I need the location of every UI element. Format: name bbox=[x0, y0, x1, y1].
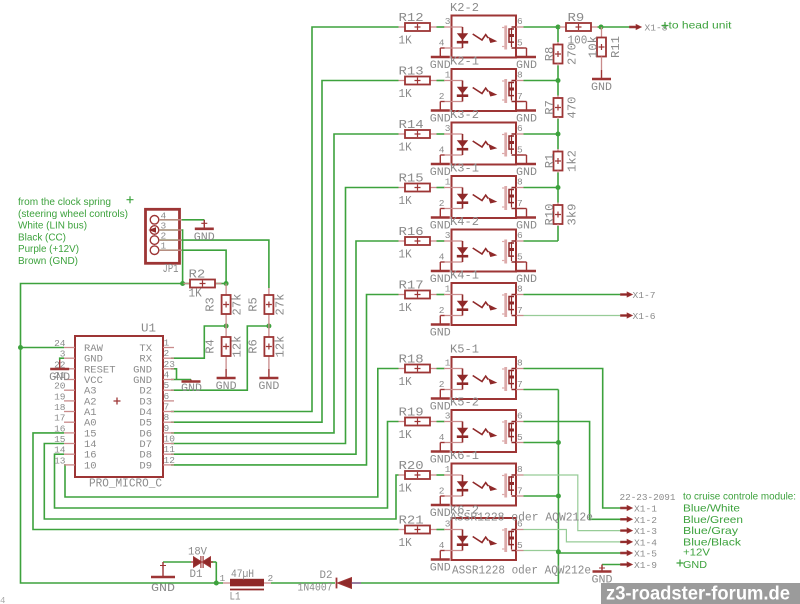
wire chain to X1-5 bbox=[558, 552, 620, 554]
svg-text:X1-6: X1-6 bbox=[633, 311, 656, 322]
svg-text:R8: R8 bbox=[544, 47, 557, 62]
diode D1 18V bbox=[191, 556, 213, 568]
svg-text:4: 4 bbox=[439, 432, 445, 443]
connector pin X1-5 bbox=[621, 550, 633, 555]
svg-text:D9: D9 bbox=[139, 460, 152, 472]
svg-text:1N4007: 1N4007 bbox=[298, 583, 333, 595]
lead K4-2 pin 5 to ground bbox=[516, 261, 527, 263]
wire R15 to optocoupler bbox=[437, 187, 445, 189]
junction R9 / R11 / X1-8 bbox=[599, 25, 604, 30]
resistor R20 bbox=[399, 471, 437, 479]
svg-text:7: 7 bbox=[517, 91, 523, 102]
svg-text:27k: 27k bbox=[232, 293, 245, 315]
svg-text:5: 5 bbox=[517, 432, 523, 443]
svg-text:D1: D1 bbox=[190, 569, 203, 581]
svg-text:5: 5 bbox=[517, 540, 523, 551]
resistor R6 bbox=[264, 337, 273, 356]
ground under K3-2 pin 5 bbox=[517, 155, 536, 164]
wire K5-1 pin8 to X1-1 bbox=[524, 369, 621, 509]
svg-text:4: 4 bbox=[164, 370, 170, 381]
wire R16 to optocoupler bbox=[437, 240, 445, 242]
ground at U1 pin4 bbox=[190, 380, 192, 382]
svg-text:3: 3 bbox=[445, 16, 451, 27]
svg-text:1: 1 bbox=[445, 358, 451, 369]
optocoupler K4-2 bbox=[444, 230, 524, 272]
ground under K5-1 pin 2 bbox=[431, 390, 450, 399]
svg-text:1: 1 bbox=[445, 464, 451, 475]
svg-text:R10: R10 bbox=[544, 203, 557, 225]
lead K2-1 pin 2 to ground bbox=[440, 101, 444, 103]
svg-text:K5-1: K5-1 bbox=[450, 344, 479, 357]
connector pin X1-3 bbox=[621, 528, 633, 533]
resistor R18 bbox=[399, 365, 437, 373]
svg-text:11: 11 bbox=[164, 444, 176, 455]
svg-text:2: 2 bbox=[439, 198, 445, 209]
wire K4-1 pin8 to X1-7 bbox=[524, 294, 621, 296]
wire ground to D1 bbox=[163, 561, 191, 563]
svg-text:K6-1: K6-1 bbox=[450, 450, 479, 463]
connector pin X1-6 bbox=[621, 313, 633, 318]
wire R18 to optocoupler bbox=[437, 368, 445, 370]
svg-text:1k2: 1k2 bbox=[567, 150, 580, 172]
lead K3-2 pin 5 to ground bbox=[516, 154, 527, 156]
ground under K2-1 pin 7 bbox=[517, 102, 536, 111]
wire U1 pin13 to R18 bbox=[64, 369, 399, 498]
optocoupler K6-1 bbox=[444, 464, 524, 506]
ground at D1 bbox=[151, 562, 175, 577]
lead R11 bottom bbox=[601, 57, 603, 71]
svg-text:K2-2: K2-2 bbox=[450, 2, 479, 15]
svg-text:4: 4 bbox=[439, 145, 445, 156]
svg-text:1K: 1K bbox=[399, 249, 412, 262]
svg-text:14: 14 bbox=[54, 445, 66, 456]
wire R12 to optocoupler bbox=[437, 26, 445, 28]
svg-text:to head unit: to head unit bbox=[669, 20, 732, 32]
wire U1 D9 to row 6 bbox=[171, 295, 399, 465]
svg-text:2: 2 bbox=[439, 379, 445, 390]
svg-text:GND: GND bbox=[258, 381, 279, 393]
junction D1 / rail bbox=[214, 581, 219, 586]
svg-text:1K: 1K bbox=[399, 302, 412, 315]
svg-text:6: 6 bbox=[517, 411, 523, 422]
resistor R17 bbox=[399, 291, 437, 299]
svg-text:22-23-2091: 22-23-2091 bbox=[620, 492, 676, 503]
resistor R4 bbox=[222, 337, 231, 356]
svg-text:R2: R2 bbox=[189, 269, 206, 282]
ground under K6-1 pin 2 bbox=[431, 496, 450, 505]
wire chain R10 to row5 bbox=[557, 226, 559, 241]
svg-text:K4-2: K4-2 bbox=[450, 216, 479, 229]
svg-text:12k: 12k bbox=[232, 335, 245, 357]
ground under K4-2 pin 4 bbox=[431, 262, 450, 271]
lead R5 bbox=[268, 288, 270, 295]
svg-text:from the clock spring: from the clock spring bbox=[18, 196, 111, 208]
wire rail L1 to D2 bbox=[271, 582, 335, 584]
svg-text:U1: U1 bbox=[141, 323, 156, 336]
lead K4-1 pin 2 to ground bbox=[440, 315, 444, 317]
svg-text:R1: R1 bbox=[544, 154, 557, 169]
svg-text:PRO_MICRO_C: PRO_MICRO_C bbox=[89, 478, 162, 491]
ground under R6 bbox=[259, 369, 278, 378]
resistor R7 bbox=[554, 98, 563, 117]
svg-text:to cruise controle module:: to cruise controle module: bbox=[683, 491, 796, 503]
wire row 5 output to chain bbox=[524, 240, 559, 242]
junction R3 / R4 / RX bbox=[224, 324, 229, 329]
svg-text:27k: 27k bbox=[274, 293, 287, 315]
wire U1 D5 to row 2 bbox=[171, 81, 399, 423]
svg-text:3k9: 3k9 bbox=[567, 203, 580, 225]
diode D2 1N4007 bbox=[337, 578, 362, 589]
svg-text:1: 1 bbox=[445, 284, 451, 295]
svg-text:5: 5 bbox=[517, 38, 523, 49]
resistor R10 bbox=[554, 205, 563, 224]
svg-text:(steering wheel controls): (steering wheel controls) bbox=[18, 208, 128, 220]
wire chain R7 to R1 bbox=[557, 119, 559, 149]
svg-text:7: 7 bbox=[517, 486, 523, 497]
svg-text:K4-1: K4-1 bbox=[450, 270, 479, 283]
wire U1 GND pin3 bbox=[60, 358, 64, 360]
svg-text:8: 8 bbox=[517, 177, 523, 188]
connector JP1 bbox=[146, 209, 183, 263]
lead R1/R10 bbox=[557, 171, 559, 173]
svg-text:8: 8 bbox=[517, 284, 523, 295]
connector pin X1-7 bbox=[621, 292, 633, 297]
optocoupler K3-2 bbox=[444, 123, 524, 165]
optocoupler K4-1 bbox=[444, 283, 524, 325]
wire chain R9 node to R8 bbox=[557, 27, 559, 42]
svg-text:4: 4 bbox=[439, 540, 445, 551]
svg-text:2: 2 bbox=[439, 305, 445, 316]
svg-text:R4: R4 bbox=[205, 339, 218, 354]
svg-text:GND: GND bbox=[49, 372, 70, 384]
resistor R5 bbox=[264, 295, 273, 314]
svg-text:2: 2 bbox=[268, 573, 274, 584]
wire R2 to node bbox=[215, 283, 226, 285]
svg-text:18: 18 bbox=[54, 402, 66, 413]
resistor R13 bbox=[399, 77, 437, 85]
wire rail D2 to K5 output chain bbox=[361, 390, 558, 584]
lead K5-2 pin 4 to ground bbox=[440, 442, 444, 444]
svg-text:4: 4 bbox=[439, 38, 445, 49]
lead K6-2 pin 4 to ground bbox=[440, 550, 444, 552]
wire R3/R4 node to U1 RX bbox=[171, 326, 226, 358]
svg-text:1K: 1K bbox=[399, 429, 412, 442]
svg-text:1K: 1K bbox=[189, 288, 202, 301]
svg-text:GND: GND bbox=[181, 383, 202, 395]
optocoupler K6-2 bbox=[444, 518, 524, 560]
svg-text:GND: GND bbox=[591, 82, 612, 94]
svg-text:1K: 1K bbox=[399, 35, 412, 48]
svg-text:R14: R14 bbox=[399, 119, 424, 132]
svg-text:GND: GND bbox=[430, 328, 451, 340]
wire K6-1 pin8 to X1-3 bbox=[524, 475, 621, 531]
svg-text:3: 3 bbox=[445, 230, 451, 241]
ground under K2-2 pin 5 bbox=[517, 48, 536, 57]
svg-text:47µH: 47µH bbox=[231, 569, 254, 581]
connector pin X1-4 bbox=[621, 539, 633, 544]
svg-text:Blue/White: Blue/White bbox=[683, 503, 740, 515]
wire U1 RAW to +12V bbox=[21, 347, 65, 349]
wire U1 pin16 to R21 bbox=[33, 433, 399, 530]
svg-text:18V: 18V bbox=[188, 547, 207, 559]
ground at JP1 pin4 bbox=[195, 220, 214, 229]
lead K6-1 pin 2 to ground bbox=[440, 495, 444, 497]
svg-text:Blue/Gray: Blue/Gray bbox=[683, 525, 739, 537]
ground under R4 bbox=[217, 369, 236, 378]
ground under K4-2 pin 5 bbox=[517, 262, 536, 271]
wire D1 to rail bbox=[215, 562, 217, 583]
lead R11 top bbox=[601, 27, 603, 38]
wire R21 to optocoupler bbox=[437, 529, 445, 531]
optocoupler K3-1 bbox=[444, 176, 524, 218]
wire R13 to optocoupler bbox=[437, 80, 445, 82]
junction chain top bbox=[556, 25, 561, 30]
wire JP1 pin4 to GND bbox=[159, 219, 204, 221]
lead R8 top bbox=[557, 42, 559, 45]
svg-text:15: 15 bbox=[54, 434, 66, 445]
resistor R9 bbox=[560, 23, 598, 31]
resistor R21 bbox=[399, 526, 437, 534]
svg-text:10: 10 bbox=[84, 460, 97, 472]
svg-text:100: 100 bbox=[568, 35, 588, 48]
wire JP1 pin2 to R5 bbox=[159, 240, 269, 288]
svg-text:1K: 1K bbox=[399, 195, 412, 208]
annotation to head unit bbox=[662, 22, 669, 29]
wire K5-1 pin7 to chain bbox=[524, 389, 559, 391]
svg-text:X1-7: X1-7 bbox=[633, 290, 656, 301]
svg-text:GND: GND bbox=[194, 232, 215, 244]
svg-text:Purple (+12V): Purple (+12V) bbox=[18, 243, 79, 255]
svg-text:GND: GND bbox=[683, 559, 707, 571]
wire U1 D8 to row 5 bbox=[171, 241, 399, 454]
svg-text:X1-5: X1-5 bbox=[634, 549, 657, 560]
wire R19 to optocoupler bbox=[437, 421, 445, 423]
svg-text:K2-1: K2-1 bbox=[450, 56, 479, 69]
wire R20 to optocoupler bbox=[437, 474, 445, 476]
svg-text:1: 1 bbox=[445, 70, 451, 81]
wire row 3 output to chain bbox=[524, 133, 559, 135]
svg-text:1: 1 bbox=[161, 241, 167, 252]
svg-text:12k: 12k bbox=[274, 335, 287, 357]
svg-text:GND: GND bbox=[151, 583, 175, 595]
svg-text:JP1: JP1 bbox=[163, 263, 179, 276]
wire K6-1 pin7 to chain bbox=[524, 495, 559, 497]
wire JP1 pin3 to R2 bbox=[159, 230, 183, 284]
svg-text:3: 3 bbox=[60, 349, 66, 360]
svg-text:6: 6 bbox=[517, 16, 523, 27]
svg-text:R21: R21 bbox=[399, 515, 424, 528]
ground at X1-9 bbox=[593, 565, 612, 572]
lead K4-2 pin 4 to ground bbox=[440, 261, 444, 263]
svg-text:3: 3 bbox=[445, 123, 451, 134]
svg-text:17: 17 bbox=[54, 413, 65, 424]
junction chain row4 bbox=[556, 185, 561, 190]
ground under K3-2 pin 4 bbox=[431, 155, 450, 164]
lead R3 bottom bbox=[225, 314, 227, 326]
resistor R16 bbox=[399, 237, 437, 245]
wire chain R1 to R10 bbox=[557, 173, 559, 203]
lead R6 bbox=[268, 326, 270, 337]
svg-text:1K: 1K bbox=[399, 537, 412, 550]
junction chain row2 bbox=[556, 78, 561, 83]
wire +12V rail left bbox=[21, 284, 224, 584]
watermark z3-roadster-forum.de bbox=[601, 583, 800, 604]
lead R8/R7 bbox=[557, 64, 559, 66]
svg-text:8: 8 bbox=[517, 70, 523, 81]
junction chain K6-2 / X1-5 bbox=[556, 549, 561, 554]
wire row 1 output to chain bbox=[524, 26, 559, 28]
IC U1 PRO_MICRO_C bbox=[64, 336, 174, 477]
wire JP1 pin1 to R2/R3 node bbox=[159, 250, 226, 283]
wire R14 to optocoupler bbox=[437, 133, 445, 135]
resistor 10k bbox=[597, 38, 606, 57]
svg-text:K5-2: K5-2 bbox=[450, 397, 479, 410]
svg-text:12: 12 bbox=[164, 455, 176, 466]
resistor R14 bbox=[399, 130, 437, 138]
wire ground to X1-9 bbox=[602, 564, 621, 566]
lead K2-2 pin 5 to ground bbox=[516, 47, 527, 49]
svg-text:R18: R18 bbox=[399, 354, 424, 367]
optocoupler K2-2 bbox=[444, 16, 524, 58]
svg-text:1K: 1K bbox=[399, 142, 412, 155]
junction +12V / RAW bbox=[18, 345, 23, 350]
svg-text:7: 7 bbox=[517, 198, 523, 209]
svg-text:R20: R20 bbox=[399, 460, 424, 473]
ground under K2-1 pin 2 bbox=[431, 102, 450, 111]
optocoupler K5-1 bbox=[444, 357, 524, 399]
svg-text:R16: R16 bbox=[399, 226, 424, 239]
wire U1 pin15 to R20 bbox=[44, 444, 398, 520]
wire D1 right lead bbox=[211, 561, 216, 563]
svg-text:L1: L1 bbox=[230, 592, 241, 604]
wire U1 D6 to row 3 bbox=[171, 134, 399, 433]
optocoupler K5-2 bbox=[444, 410, 524, 452]
svg-text:R13: R13 bbox=[399, 66, 424, 79]
svg-text:R19: R19 bbox=[399, 407, 424, 420]
svg-text:1: 1 bbox=[164, 338, 170, 349]
wire K6-2 pin5 to chain bbox=[524, 550, 559, 552]
svg-text:1K: 1K bbox=[399, 376, 412, 389]
svg-text:7: 7 bbox=[164, 402, 170, 413]
svg-text:GND: GND bbox=[430, 563, 451, 575]
lead K2-1 pin 7 to ground bbox=[516, 101, 527, 103]
svg-text:10k: 10k bbox=[588, 36, 601, 58]
ground under K3-1 pin 2 bbox=[431, 209, 450, 218]
svg-text:9: 9 bbox=[164, 423, 170, 434]
svg-text:1K: 1K bbox=[399, 88, 412, 101]
junction LIN / R2 bbox=[180, 281, 185, 286]
resistor R3 bbox=[222, 295, 231, 314]
svg-text:White (LIN bus): White (LIN bus) bbox=[18, 220, 87, 232]
svg-text:6: 6 bbox=[517, 123, 523, 134]
svg-text:1: 1 bbox=[220, 573, 226, 584]
svg-text:GND: GND bbox=[216, 381, 237, 393]
lead K3-1 pin 7 to ground bbox=[516, 208, 527, 210]
wire U1 GND pin23 bbox=[171, 369, 177, 380]
wire R17 to optocoupler bbox=[437, 294, 445, 296]
svg-text:1: 1 bbox=[445, 177, 451, 188]
svg-text:8: 8 bbox=[517, 464, 523, 475]
connector pin X1-2 bbox=[621, 517, 633, 522]
svg-text:24: 24 bbox=[54, 338, 66, 349]
connector pin X1-8 bbox=[630, 24, 642, 29]
svg-text:1K: 1K bbox=[399, 483, 412, 496]
svg-text:X1-1: X1-1 bbox=[634, 504, 657, 515]
svg-text:5: 5 bbox=[517, 252, 523, 263]
wire R9 to X1-8 bbox=[598, 26, 630, 28]
resistor R8 bbox=[554, 45, 563, 64]
ground under K3-1 pin 7 bbox=[517, 209, 536, 218]
svg-text:R12: R12 bbox=[399, 12, 424, 25]
wire node to R2 bbox=[183, 283, 190, 285]
svg-text:ASSR1228 oder AQW212e: ASSR1228 oder AQW212e bbox=[450, 512, 593, 525]
ground under K5-2 pin 4 bbox=[431, 443, 450, 452]
lead R7/R1 bbox=[557, 117, 559, 119]
optocoupler K2-1 bbox=[444, 69, 524, 111]
wire U1 D4 to row 1 bbox=[171, 27, 399, 412]
lead K3-2 pin 4 to ground bbox=[440, 154, 444, 156]
svg-text:7: 7 bbox=[517, 305, 523, 316]
svg-text:7: 7 bbox=[517, 379, 523, 390]
connector pin X1-1 bbox=[621, 505, 633, 510]
svg-text:R9: R9 bbox=[568, 12, 585, 25]
svg-text:16: 16 bbox=[54, 423, 66, 434]
svg-text:X1-2: X1-2 bbox=[634, 515, 657, 526]
resistor R19 bbox=[399, 418, 437, 426]
svg-text:10: 10 bbox=[164, 434, 176, 445]
svg-text:Black (CC): Black (CC) bbox=[18, 231, 66, 243]
junction chain K5-2 bbox=[556, 440, 561, 445]
ground under K6-2 pin 4 bbox=[431, 551, 450, 560]
annotation GND origin cross bbox=[677, 560, 684, 567]
ground under K4-1 pin 2 bbox=[431, 316, 450, 325]
svg-text:ASSR1228 oder AQW212e: ASSR1228 oder AQW212e bbox=[452, 565, 591, 578]
svg-text:3: 3 bbox=[445, 411, 451, 422]
svg-text:R7: R7 bbox=[544, 100, 557, 115]
lead K5-1 pin 2 to ground bbox=[440, 389, 444, 391]
svg-text:23: 23 bbox=[164, 359, 176, 370]
lead R4 bbox=[225, 326, 227, 337]
svg-text:2: 2 bbox=[439, 91, 445, 102]
ground under R11 bbox=[592, 70, 611, 79]
svg-text:R3: R3 bbox=[205, 297, 218, 312]
svg-text:6: 6 bbox=[517, 230, 523, 241]
wire U1 D7 to row 4 bbox=[171, 188, 399, 444]
wire K5-2 pin6 to X1-2 bbox=[524, 422, 621, 520]
svg-text:13: 13 bbox=[54, 455, 66, 466]
svg-text:470: 470 bbox=[567, 96, 580, 118]
svg-text:2: 2 bbox=[164, 348, 170, 359]
junction R5 / R6 / D2 bbox=[266, 324, 271, 329]
wire U1 pin14 to R19 bbox=[55, 422, 399, 509]
svg-text:X1-9: X1-9 bbox=[634, 560, 657, 571]
svg-text:R17: R17 bbox=[399, 280, 424, 293]
junction chain K6-1 bbox=[556, 494, 561, 499]
svg-text:19: 19 bbox=[54, 391, 66, 402]
ground at U1 pin3 bbox=[50, 360, 69, 369]
svg-text:4: 4 bbox=[0, 596, 5, 604]
svg-text:R6: R6 bbox=[247, 339, 260, 354]
lead R10 bottom bbox=[557, 224, 559, 226]
wire R5/R6 node to U1 D2 bbox=[171, 326, 269, 390]
junction R2 / R3 / JP1-1 bbox=[224, 281, 229, 286]
svg-text:K3-1: K3-1 bbox=[450, 163, 479, 176]
wire K6-2 pin6 to X1-4 bbox=[524, 530, 621, 542]
annotation origin cross bbox=[127, 196, 134, 203]
svg-text:R11: R11 bbox=[610, 36, 623, 58]
wire row 2 output to chain bbox=[524, 80, 559, 82]
lead K2-2 pin 4 to ground bbox=[440, 47, 444, 49]
